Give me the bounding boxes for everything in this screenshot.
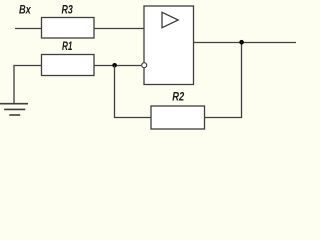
op-amp U1 body — [144, 6, 194, 85]
junction node B (output) — [239, 40, 244, 45]
svg-text:R2: R2 — [172, 90, 184, 104]
wire R1 to inverting input — [94, 65, 141, 67]
wire node A down to feedback — [115, 66, 152, 118]
wire ground to R1 — [14, 66, 42, 104]
op-amp triangle symbol — [162, 12, 178, 27]
ground — [0, 104, 28, 115]
junction node A — [112, 63, 117, 68]
resistor R2 — [151, 90, 205, 130]
wire input to R3 — [15, 28, 42, 30]
svg-text:Bx: Bx — [19, 2, 32, 16]
resistor R1 — [42, 39, 95, 76]
wire R2 to output node — [205, 43, 242, 118]
svg-text:R1: R1 — [62, 39, 73, 53]
svg-text:R3: R3 — [62, 2, 74, 16]
resistor R3 — [42, 2, 95, 38]
inverting input bubble — [142, 63, 147, 68]
wire R3 to op-amp noninverting input — [94, 28, 144, 30]
wire op-amp output — [194, 42, 297, 44]
